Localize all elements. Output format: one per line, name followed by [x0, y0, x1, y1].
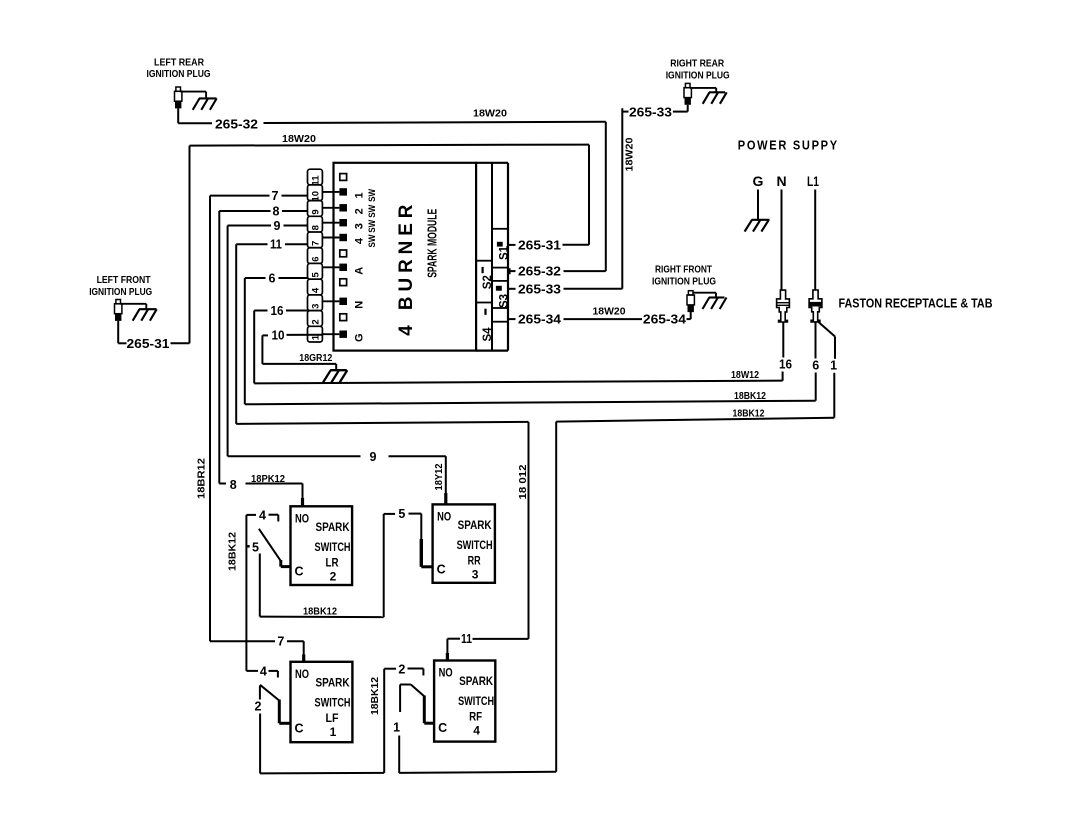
svg-text:C: C [294, 722, 303, 736]
svg-text:9: 9 [370, 450, 377, 464]
svg-text:18W20: 18W20 [624, 137, 635, 171]
svg-text:LR: LR [326, 555, 339, 569]
svg-text:SPARK: SPARK [316, 675, 350, 689]
svg-text:265-34: 265-34 [518, 313, 561, 327]
svg-text:LF: LF [326, 711, 339, 725]
svg-text:G: G [753, 173, 764, 189]
svg-text:LEFT FRONT: LEFT FRONT [97, 275, 151, 286]
svg-text:IGNITION PLUG: IGNITION PLUG [147, 69, 211, 80]
svg-text:SW: SW [367, 220, 378, 233]
svg-text:N: N [777, 173, 787, 189]
svg-text:SW: SW [367, 234, 378, 247]
svg-text:6: 6 [311, 256, 322, 261]
svg-text:2: 2 [311, 319, 322, 324]
svg-text:1: 1 [330, 725, 337, 739]
svg-text:4: 4 [260, 664, 267, 678]
svg-text:IGNITION PLUG: IGNITION PLUG [652, 276, 716, 287]
svg-text:18BK12: 18BK12 [370, 677, 381, 715]
svg-text:18BK12: 18BK12 [734, 391, 766, 402]
svg-text:4: 4 [311, 287, 322, 293]
svg-text:2: 2 [330, 569, 337, 583]
svg-text:SW: SW [367, 205, 378, 218]
svg-text:8: 8 [273, 205, 280, 219]
svg-text:SWITCH: SWITCH [315, 695, 351, 709]
svg-text:9: 9 [311, 209, 322, 214]
svg-text:4: 4 [259, 508, 266, 522]
svg-text:265-31: 265-31 [518, 238, 561, 252]
svg-text:265-31: 265-31 [127, 337, 170, 351]
svg-text:9: 9 [274, 219, 281, 233]
svg-text:3: 3 [311, 304, 322, 309]
svg-text:SWITCH: SWITCH [458, 694, 494, 708]
svg-text:SPARK: SPARK [458, 518, 492, 532]
svg-text:RR: RR [468, 553, 481, 567]
svg-text:NO: NO [439, 668, 453, 680]
svg-text:18Y12: 18Y12 [434, 463, 445, 490]
svg-text:FASTON RECEPTACLE & TAB: FASTON RECEPTACLE & TAB [839, 296, 993, 310]
svg-text:11: 11 [270, 238, 282, 252]
svg-text:2: 2 [255, 700, 262, 714]
svg-text:16: 16 [271, 304, 284, 318]
svg-text:18PK12: 18PK12 [251, 474, 285, 485]
svg-text:7: 7 [277, 635, 284, 649]
svg-text:5: 5 [398, 507, 405, 521]
svg-text:265-34: 265-34 [643, 312, 686, 326]
svg-text:N: N [353, 301, 365, 309]
svg-text:S1: S1 [498, 245, 510, 260]
svg-text:IGNITION PLUG: IGNITION PLUG [89, 287, 152, 298]
svg-text:18W20: 18W20 [593, 306, 626, 317]
svg-text:18W12: 18W12 [731, 370, 759, 381]
svg-text:18BR12: 18BR12 [197, 458, 208, 499]
svg-text:C: C [437, 562, 446, 576]
svg-text:3: 3 [353, 223, 365, 229]
svg-text:A: A [353, 267, 365, 275]
svg-text:265-33: 265-33 [629, 105, 672, 119]
svg-text:11: 11 [461, 632, 472, 646]
svg-text:SPARK: SPARK [316, 520, 350, 534]
svg-text:6: 6 [269, 272, 276, 286]
svg-text:LEFT REAR: LEFT REAR [154, 58, 204, 69]
svg-text:2: 2 [353, 208, 365, 214]
svg-text:18BK12: 18BK12 [303, 607, 337, 618]
svg-text:SWITCH: SWITCH [315, 540, 351, 554]
svg-text:C: C [294, 565, 303, 579]
svg-text:5: 5 [311, 271, 322, 277]
svg-text:NO: NO [295, 513, 309, 525]
svg-text:6: 6 [812, 358, 819, 372]
svg-text:C: C [438, 721, 447, 735]
svg-text:18BK12: 18BK12 [228, 532, 239, 571]
svg-text:SWITCH: SWITCH [457, 538, 493, 552]
svg-text:7: 7 [272, 189, 279, 203]
svg-text:SW: SW [367, 189, 378, 202]
svg-text:NO: NO [437, 511, 451, 523]
svg-text:SPARK MODULE: SPARK MODULE [425, 209, 440, 278]
svg-text:8: 8 [230, 478, 237, 492]
svg-text:8: 8 [311, 225, 322, 230]
svg-text:5: 5 [252, 540, 259, 554]
svg-text:S2: S2 [482, 275, 494, 289]
svg-text:265-32: 265-32 [215, 117, 258, 131]
svg-text:1: 1 [393, 721, 400, 735]
svg-text:16: 16 [779, 357, 792, 371]
svg-text:S4: S4 [482, 327, 494, 342]
svg-text:3: 3 [472, 567, 479, 581]
svg-text:G: G [353, 333, 365, 342]
svg-text:265-32: 265-32 [518, 265, 561, 279]
svg-text:RF: RF [469, 710, 482, 724]
svg-text:18 012: 18 012 [518, 464, 529, 499]
svg-text:4: 4 [353, 237, 365, 244]
svg-text:S3: S3 [498, 294, 510, 308]
svg-text:4: 4 [473, 724, 480, 738]
svg-text:POWER SUPPY: POWER SUPPY [738, 138, 839, 153]
svg-text:RIGHT REAR: RIGHT REAR [670, 59, 724, 70]
svg-text:NO: NO [295, 669, 309, 681]
svg-text:1: 1 [353, 192, 365, 198]
svg-text:11: 11 [311, 175, 322, 186]
svg-text:10: 10 [311, 191, 322, 202]
svg-text:18GR12: 18GR12 [299, 353, 332, 364]
svg-text:18W20: 18W20 [473, 109, 507, 120]
svg-text:SPARK: SPARK [459, 674, 493, 688]
svg-text:L1: L1 [807, 173, 819, 189]
svg-text:IGNITION PLUG: IGNITION PLUG [666, 70, 730, 81]
svg-text:265-33: 265-33 [518, 282, 561, 296]
svg-text:10: 10 [272, 328, 285, 342]
svg-text:7: 7 [311, 241, 322, 246]
svg-text:1: 1 [830, 359, 837, 373]
svg-text:18W20: 18W20 [282, 134, 316, 145]
svg-text:2: 2 [398, 663, 405, 677]
svg-text:4 BURNER: 4 BURNER [396, 200, 417, 336]
svg-text:RIGHT FRONT: RIGHT FRONT [655, 265, 712, 276]
